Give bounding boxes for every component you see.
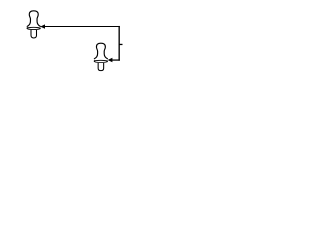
arrowhead into pawn P2: [108, 58, 113, 62]
wire right vertical segment: [118, 26, 120, 61]
pawn P2 body and foot: [98, 63, 104, 71]
wire stub tick: [119, 43, 122, 45]
arrowhead into pawn P1: [40, 24, 45, 28]
pawn P1 head and flare: [27, 11, 40, 27]
pawn P2 head and flare: [94, 43, 107, 59]
pawn P2 collar: [94, 60, 108, 62]
wire bottom horizontal segment: [112, 59, 120, 61]
wire top horizontal segment: [45, 26, 120, 28]
pawn P1 collar and base: [27, 27, 41, 38]
